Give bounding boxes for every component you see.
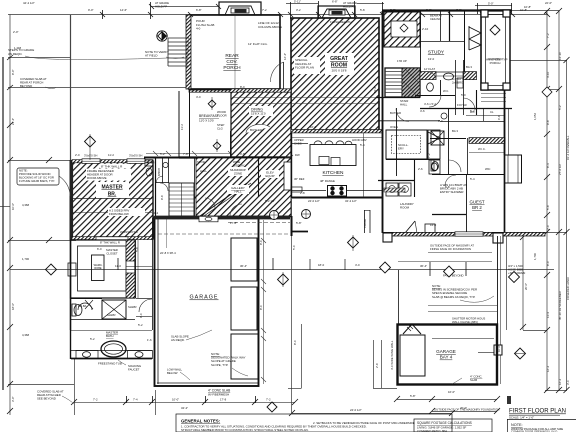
svg-text:6'-8": 6'-8" xyxy=(332,0,338,4)
svg-text:DW: DW xyxy=(295,153,300,157)
svg-text:WIC: WIC xyxy=(485,167,490,171)
master suite hatch xyxy=(72,161,153,238)
svg-text:5'-2": 5'-2" xyxy=(160,152,166,156)
kitchen counters xyxy=(292,143,308,145)
porch columns xyxy=(481,10,488,17)
garage east dim vertical xyxy=(261,220,266,384)
columns on wall xyxy=(493,233,503,243)
entry door xyxy=(405,221,435,233)
svg-text:7'-2: 7'-2 xyxy=(427,153,431,158)
closet rod xyxy=(469,152,504,154)
svg-text:PORCH: PORCH xyxy=(490,61,501,65)
svg-text:HOOD ABV: HOOD ABV xyxy=(352,138,367,142)
svg-text:4'-6 x 5'-2: 4'-6 x 5'-2 xyxy=(424,102,437,106)
svg-text:LINEN: LINEN xyxy=(157,168,161,176)
svg-text:7'-0": 7'-0" xyxy=(456,8,462,12)
svg-text:GREAT: GREAT xyxy=(330,56,349,62)
svg-text:STOR: STOR xyxy=(197,160,205,164)
west wall lower xyxy=(70,240,72,330)
ramp diagonals xyxy=(200,183,247,216)
porch inner post right xyxy=(279,15,281,89)
master interior line xyxy=(73,198,152,200)
svg-text:4'-6: 4'-6 xyxy=(420,109,425,113)
svg-text:OVEN: OVEN xyxy=(390,125,398,129)
kitchen west wall xyxy=(291,133,293,198)
svg-text:21'-4": 21'-4" xyxy=(11,118,15,125)
svg-text:COLUMN ABOVE: COLUMN ABOVE xyxy=(258,25,282,29)
right dim ticks xyxy=(520,8,570,393)
svg-text:7'-2: 7'-2 xyxy=(266,398,271,402)
svg-text:36'-4": 36'-4" xyxy=(240,264,247,268)
svg-text:5'-8": 5'-8" xyxy=(410,394,416,398)
svg-text:5'-8: 5'-8 xyxy=(135,247,139,252)
svg-text:ERY: ERY xyxy=(398,147,404,151)
svg-text:9'-0: 9'-0 xyxy=(139,313,143,318)
svg-text:9'-8: 9'-8 xyxy=(546,120,550,125)
bath3 shower xyxy=(431,113,504,233)
kitchen xyxy=(291,133,382,197)
svg-text:5'-8: 5'-8 xyxy=(546,205,550,210)
svg-text:5'-8: 5'-8 xyxy=(360,8,365,12)
gallery corridor hatch xyxy=(196,158,291,216)
svg-text:REAR: REAR xyxy=(225,53,239,59)
svg-text:FINISH FACE OF FOUNDATION: FINISH FACE OF FOUNDATION xyxy=(430,247,471,251)
svg-text:1,052: 1,052 xyxy=(533,113,537,120)
svg-text:SHWR: SHWR xyxy=(128,305,137,309)
svg-text:GUEST: GUEST xyxy=(469,200,484,205)
bay4 stall xyxy=(400,324,494,376)
breakfast room xyxy=(179,89,285,158)
beam lines across great room xyxy=(232,97,379,99)
bottom-left slab verticals xyxy=(74,358,76,415)
svg-text:9'-8": 9'-8" xyxy=(240,152,246,156)
great room hatch xyxy=(291,18,379,131)
vanity and tub xyxy=(71,330,153,359)
porch door arc xyxy=(270,62,283,82)
note box left xyxy=(17,168,59,185)
svg-text:KITCHEN: KITCHEN xyxy=(322,170,344,176)
hall stairs xyxy=(169,183,194,216)
svg-text:CL: CL xyxy=(490,110,494,114)
right dim lines xyxy=(510,11,567,391)
hatched foyer closet xyxy=(384,12,420,47)
svg-text:6'-8: 6'-8 xyxy=(497,115,501,120)
svg-text:FIRST FLOOR PLAN: FIRST FLOOR PLAN xyxy=(509,409,566,415)
svg-text:16'-0": 16'-0" xyxy=(448,390,455,394)
laundry hatch wall xyxy=(384,188,405,192)
stair hall extras xyxy=(396,108,509,155)
svg-text:FLOOR: FLOOR xyxy=(217,113,227,117)
svg-text:9'-8: 9'-8 xyxy=(160,195,164,200)
svg-text:5'-2: 5'-2 xyxy=(470,109,475,113)
svg-text:7'-2: 7'-2 xyxy=(262,8,267,12)
fireplace great room xyxy=(318,6,355,18)
svg-text:9'-0": 9'-0" xyxy=(88,8,94,12)
svg-text:12'-4": 12'-4" xyxy=(283,53,287,60)
svg-text:BR 2: BR 2 xyxy=(472,205,482,210)
bar counter xyxy=(284,162,291,190)
laundry xyxy=(386,183,411,196)
svg-text:5'-4: 5'-4 xyxy=(360,143,365,147)
svg-text:1,448: 1,448 xyxy=(14,46,21,50)
svg-text:17'-8": 17'-8" xyxy=(230,221,237,225)
svg-text:BA 3: BA 3 xyxy=(466,65,472,69)
svg-text:SQUARE FOOTAGE CALCULATIONS: SQUARE FOOTAGE CALCULATIONS xyxy=(417,421,472,425)
bay window east xyxy=(505,155,522,183)
svg-text:FLUSH HEARTH: FLUSH HEARTH xyxy=(330,20,351,24)
bottom dim ticks xyxy=(71,396,500,416)
svg-text:1,700: 1,700 xyxy=(22,257,29,261)
svg-text:10'-0": 10'-0" xyxy=(497,345,501,352)
svg-text:17R UP: 17R UP xyxy=(397,59,407,63)
left site line xyxy=(2,57,4,390)
svg-text:5'-2: 5'-2 xyxy=(90,337,95,341)
svg-text:BUTLER: BUTLER xyxy=(390,111,401,115)
svg-text:DISPLAY: DISPLAY xyxy=(233,163,245,167)
svg-text:15'8 X 11'0: 15'8 X 11'0 xyxy=(251,112,266,116)
compass master xyxy=(85,134,96,160)
svg-text:8" THK WALL R: 8" THK WALL R xyxy=(100,241,120,245)
top dimension line xyxy=(8,4,548,15)
svg-text:AS REQD.: AS REQD. xyxy=(8,52,23,56)
wing wall mark xyxy=(507,396,511,404)
general notes block xyxy=(176,414,452,432)
svg-text:3'-0": 3'-0" xyxy=(11,396,15,402)
top wall right wing xyxy=(382,9,512,11)
svg-text:MASTER: MASTER xyxy=(101,185,123,191)
study room walls xyxy=(420,11,465,72)
garage door bays xyxy=(231,238,258,379)
long vertical dim line xyxy=(291,199,293,413)
svg-text:3'-2: 3'-2 xyxy=(296,8,301,12)
master note plate xyxy=(86,169,131,181)
gallery plates xyxy=(227,185,249,194)
svg-text:14'-2: 14'-2 xyxy=(152,211,159,215)
svg-text:FREESTAND TUB: FREESTAND TUB xyxy=(98,362,122,366)
closet hatch band east xyxy=(469,138,505,144)
svg-text:SHWR: SHWR xyxy=(107,313,116,317)
svg-text:BR.: BR. xyxy=(108,192,117,198)
interior dim row above wall157 xyxy=(146,151,293,156)
master top wall label xyxy=(100,164,130,168)
svg-text:22'-0": 22'-0" xyxy=(545,1,552,5)
svg-text:SEE BEYOND: SEE BEYOND xyxy=(37,397,56,401)
svg-text:SLAB @ BEAMS AS REQD, TYP.: SLAB @ BEAMS AS REQD, TYP. xyxy=(432,295,476,299)
svg-text:4,368: 4,368 xyxy=(22,203,29,207)
south wall band east wing xyxy=(383,232,545,236)
dining label plate xyxy=(249,106,273,116)
stairs main xyxy=(376,68,420,98)
svg-text:36'-4": 36'-4" xyxy=(420,264,427,268)
square footage box xyxy=(414,419,492,432)
svg-text:19'-8": 19'-8" xyxy=(373,86,377,93)
svg-text:18'-0": 18'-0" xyxy=(11,303,15,310)
svg-text:16'-8": 16'-8" xyxy=(310,125,317,129)
guest door arcs xyxy=(445,160,461,186)
svg-text:SLOPE, TYP.: SLOPE, TYP. xyxy=(211,363,228,367)
svg-text:2'-0: 2'-0 xyxy=(75,153,80,157)
svg-text:34'-2 1/2": 34'-2 1/2" xyxy=(345,199,357,203)
svg-text:3'0x5'0 SH: 3'0x5'0 SH xyxy=(129,154,142,158)
wic corridor lines xyxy=(126,218,153,330)
svg-text:CLOSET: CLOSET xyxy=(106,251,117,255)
garage interior dim line xyxy=(158,233,290,235)
svg-text:22'-8 X 38'-4: 22'-8 X 38'-4 xyxy=(160,251,176,255)
rear cov porch xyxy=(189,15,280,89)
bay4 west approach wall xyxy=(398,270,400,324)
master label plate xyxy=(96,182,129,198)
svg-text:4,368: 4,368 xyxy=(22,333,29,337)
master bottom wall band xyxy=(72,237,153,240)
svg-text:24'-0 1/2": 24'-0 1/2" xyxy=(308,199,320,203)
bottom dim lines xyxy=(74,324,497,414)
svg-text:BELOW: BELOW xyxy=(167,371,178,375)
svg-text:10'-8": 10'-8" xyxy=(524,5,531,9)
porch left wall hatched xyxy=(186,15,191,89)
svg-text:91'-2 1/2 OVERALL: 91'-2 1/2 OVERALL xyxy=(566,135,570,160)
svg-text:13'-10: 13'-10 xyxy=(558,52,562,60)
svg-text:5'-11": 5'-11" xyxy=(294,0,301,4)
svg-text:20'0 X 19'8: 20'0 X 19'8 xyxy=(332,69,347,73)
svg-text:4'-0: 4'-0 xyxy=(355,263,360,267)
svg-text:12' FLAT CLG.: 12' FLAT CLG. xyxy=(248,42,268,46)
svg-text:8'-0: 8'-0 xyxy=(546,261,550,266)
svg-text:45'-10 1/2 SCREENED: 45'-10 1/2 SCREENED xyxy=(558,291,562,320)
porch ceiling line xyxy=(234,15,236,89)
svg-text:HALL: HALL xyxy=(235,190,242,194)
svg-text:11'-4: 11'-4 xyxy=(546,312,550,318)
breakfast symbols xyxy=(208,97,221,152)
svg-text:BAY 4: BAY 4 xyxy=(440,355,453,360)
left edge dim texts xyxy=(11,30,29,402)
svg-text:6'-8": 6'-8" xyxy=(196,8,202,12)
svg-text:48" RANGE: 48" RANGE xyxy=(320,179,335,183)
study bay windows xyxy=(469,11,481,90)
svg-text:BREAKFAST: BREAKFAST xyxy=(199,114,219,118)
svg-text:HOLD AT: HOLD AT xyxy=(343,4,355,8)
svg-text:MA BA: MA BA xyxy=(78,304,87,308)
top dim ticks xyxy=(100,1,550,19)
wall x258 xyxy=(258,158,260,197)
svg-text:4'-0: 4'-0 xyxy=(196,95,201,99)
svg-text:12'-2: 12'-2 xyxy=(546,365,550,372)
svg-text:BEYOND: BEYOND xyxy=(20,84,32,88)
svg-text:FLOOR PLAN: FLOOR PLAN xyxy=(295,66,314,70)
svg-text:6'-0: 6'-0 xyxy=(97,247,102,251)
svg-text:2'-6: 2'-6 xyxy=(418,167,423,171)
svg-text:12'-2: 12'-2 xyxy=(558,378,562,385)
svg-text:11'-2: 11'-2 xyxy=(108,153,114,157)
svg-text:FAUCET: FAUCET xyxy=(128,367,140,371)
compass symbol xyxy=(157,31,167,41)
svg-text:8" THK WALL R: 8" THK WALL R xyxy=(101,164,123,168)
svg-text:8'-0: 8'-0 xyxy=(259,305,263,310)
svg-text:ENTRY SHOWER: ENTRY SHOWER xyxy=(440,190,464,194)
svg-text:7'-4: 7'-4 xyxy=(133,398,138,402)
svg-text:18'-0: 18'-0 xyxy=(318,263,325,267)
svg-text:WAINSCOT R: WAINSCOT R xyxy=(120,230,138,234)
great room label plate xyxy=(325,53,354,75)
bottom dim texts xyxy=(93,340,501,412)
svg-text:8'-0": 8'-0" xyxy=(11,69,15,75)
master bath shower xyxy=(70,299,152,331)
svg-text:20'-0": 20'-0" xyxy=(524,283,528,290)
svg-text:7'-2: 7'-2 xyxy=(93,398,98,402)
svg-text:13'-0: 13'-0 xyxy=(428,57,435,61)
svg-text:HOLD FP: HOLD FP xyxy=(155,4,167,8)
master closet block xyxy=(68,240,135,298)
svg-text:2'-8: 2'-8 xyxy=(300,191,305,195)
garage bay 4 xyxy=(398,325,498,385)
yard vertical line xyxy=(70,15,72,160)
svg-text:CEILING: CEILING xyxy=(430,17,441,21)
svg-text:A 8'x8' COL. TYP: A 8'x8' COL. TYP xyxy=(486,58,508,62)
porch bottom wall band xyxy=(189,89,291,92)
svg-text:10'-0": 10'-0" xyxy=(11,203,15,210)
svg-text:BA 3: BA 3 xyxy=(452,129,458,133)
svg-text:8'-0: 8'-0 xyxy=(259,240,263,245)
svg-text:2'-10: 2'-10 xyxy=(422,27,429,31)
garage xyxy=(155,218,259,387)
butler arc plate xyxy=(246,124,270,133)
svg-text:OUTSIDE FACE OF THE MASONRY FO: OUTSIDE FACE OF THE MASONRY FOUNDATION xyxy=(434,407,499,411)
svg-text:W.I.C.: W.I.C. xyxy=(478,147,486,151)
section symbols xyxy=(46,211,526,413)
garage top dark band xyxy=(154,216,290,220)
svg-text:AS REQD.: AS REQD. xyxy=(171,338,185,342)
svg-text:BATH: BATH xyxy=(106,334,114,338)
svg-text:8'-0: 8'-0 xyxy=(293,340,297,345)
svg-text:3'-0: 3'-0 xyxy=(438,119,443,123)
svg-text:GARAGE: GARAGE xyxy=(189,295,218,301)
svg-text:5'-2: 5'-2 xyxy=(558,105,562,110)
dining hatch xyxy=(231,91,291,157)
hall door arcs xyxy=(160,183,242,216)
svg-text:5'-0: 5'-0 xyxy=(461,93,466,97)
svg-text:8'-0: 8'-0 xyxy=(240,85,245,89)
left dim ticks xyxy=(7,55,52,414)
svg-text:FUTURE GRAB BARS, TYP.: FUTURE GRAB BARS, TYP. xyxy=(19,179,55,183)
svg-text:ROBE: ROBE xyxy=(94,266,102,270)
svg-text:HALL: HALL xyxy=(200,169,207,173)
svg-text:5'-2: 5'-2 xyxy=(138,323,143,327)
center hall walls xyxy=(144,131,382,218)
svg-text:44'-2 1/2": 44'-2 1/2" xyxy=(23,1,35,5)
svg-text:8'-4: 8'-4 xyxy=(546,163,550,168)
svg-text:COV.: COV. xyxy=(226,59,237,65)
pantry block xyxy=(386,130,427,159)
porch steps below xyxy=(481,94,506,102)
svg-text:11'-0: 11'-0 xyxy=(115,264,121,268)
svg-text:3'0x5'0 SH: 3'0x5'0 SH xyxy=(84,154,97,158)
svg-text:FOYER: FOYER xyxy=(457,103,467,107)
top edge dim texts xyxy=(23,0,552,12)
porch diamond xyxy=(490,25,500,35)
svg-text:BUTLER: BUTLER xyxy=(250,128,263,132)
svg-text:11'0 X 10'0: 11'0 X 10'0 xyxy=(199,118,214,122)
svg-text:5'-8": 5'-8" xyxy=(296,221,302,225)
fireplace left xyxy=(219,2,261,15)
powder east xyxy=(429,160,440,174)
svg-text:24'-0 1/2": 24'-0 1/2" xyxy=(350,408,362,412)
closet hatched walls xyxy=(126,240,135,261)
range xyxy=(328,186,347,197)
svg-text:2'-0: 2'-0 xyxy=(546,225,550,230)
svg-text:3'-0: 3'-0 xyxy=(566,380,570,385)
svg-text:6'-8: 6'-8 xyxy=(445,185,450,189)
master lower note xyxy=(108,208,145,216)
svg-text:11'-2: 11'-2 xyxy=(180,124,184,130)
svg-text:2'-0": 2'-0" xyxy=(13,30,19,34)
master left wall xyxy=(70,160,74,240)
section ticks on long line xyxy=(118,258,466,276)
svg-text:36" REF: 36" REF xyxy=(294,177,305,181)
svg-text:4'-0 WIDE WING WALL: 4'-0 WIDE WING WALL xyxy=(390,340,394,370)
svg-text:COVERED LANAI: COVERED LANAI xyxy=(566,277,570,300)
svg-text:5'-8": 5'-8" xyxy=(390,8,396,12)
toilet mbath xyxy=(72,300,93,316)
hall bath band xyxy=(415,60,512,115)
svg-text:EQUIP: EQUIP xyxy=(266,174,275,178)
screened porch east verticals xyxy=(494,236,507,384)
svg-text:STUDY: STUDY xyxy=(428,50,445,56)
svg-text:34'-2": 34'-2" xyxy=(181,406,188,410)
interior dim texts row xyxy=(75,27,501,342)
svg-text:SCALE: 1/4" = 1'-0": SCALE: 1/4" = 1'-0" xyxy=(509,416,534,420)
east wing mid walls xyxy=(378,11,505,233)
svg-text:4-0: 4-0 xyxy=(196,27,201,31)
left dim lines xyxy=(0,15,189,416)
svg-text:GARAGE: GARAGE xyxy=(436,349,456,354)
ovens column xyxy=(428,130,440,159)
svg-text:1,700: 1,700 xyxy=(533,253,537,260)
svg-text:27'-6 1/2: 27'-6 1/2 xyxy=(558,164,562,175)
svg-text:5'-4: 5'-4 xyxy=(470,177,475,181)
svg-text:ROOM: ROOM xyxy=(400,206,410,210)
master window gaps xyxy=(82,159,100,164)
svg-text:FROM BELOW: FROM BELOW xyxy=(109,212,129,216)
master top wall xyxy=(72,160,153,163)
svg-text:14'-6": 14'-6" xyxy=(120,8,127,12)
svg-text:ZONE: ZONE xyxy=(234,172,242,176)
svg-text:5'-0: 5'-0 xyxy=(292,245,296,250)
svg-text:W.C.: W.C. xyxy=(443,89,449,93)
porch beams horizontals xyxy=(398,253,497,312)
chase verticals xyxy=(364,210,370,233)
window in south wall xyxy=(455,232,483,236)
porch steps xyxy=(168,38,189,66)
svg-text:7'-2: 7'-2 xyxy=(546,33,550,38)
svg-text:2x6 BRG: 2x6 BRG xyxy=(452,80,463,84)
covered porch right xyxy=(481,10,510,90)
svg-text:AT FIELD: AT FIELD xyxy=(145,54,157,58)
kitchen north wall band xyxy=(291,130,382,133)
svg-text:1'-6: 1'-6 xyxy=(147,338,152,342)
svg-text:7'-8": 7'-8" xyxy=(183,152,189,156)
svg-text:PORCH: PORCH xyxy=(223,65,241,71)
svg-text:4'-10: 4'-10 xyxy=(546,71,550,78)
svg-text:9'-2": 9'-2" xyxy=(426,8,432,12)
powder fixtures xyxy=(145,158,168,183)
svg-text:ROOM ABOVE: ROOM ABOVE xyxy=(87,176,107,180)
svg-text:AT OVERALL HOUSE BUILD CHECKED: AT OVERALL HOUSE BUILD CHECKED. xyxy=(313,425,367,429)
svg-text:10'-0": 10'-0" xyxy=(172,398,179,402)
svg-text:CHASE: CHASE xyxy=(363,219,367,228)
svg-text:GENERAL NOTES:: GENERAL NOTES: xyxy=(181,419,221,424)
svg-text:5'-2 1/2": 5'-2 1/2" xyxy=(265,199,275,203)
svg-text:HALL: HALL xyxy=(400,103,408,107)
bath door arcs xyxy=(428,72,475,110)
